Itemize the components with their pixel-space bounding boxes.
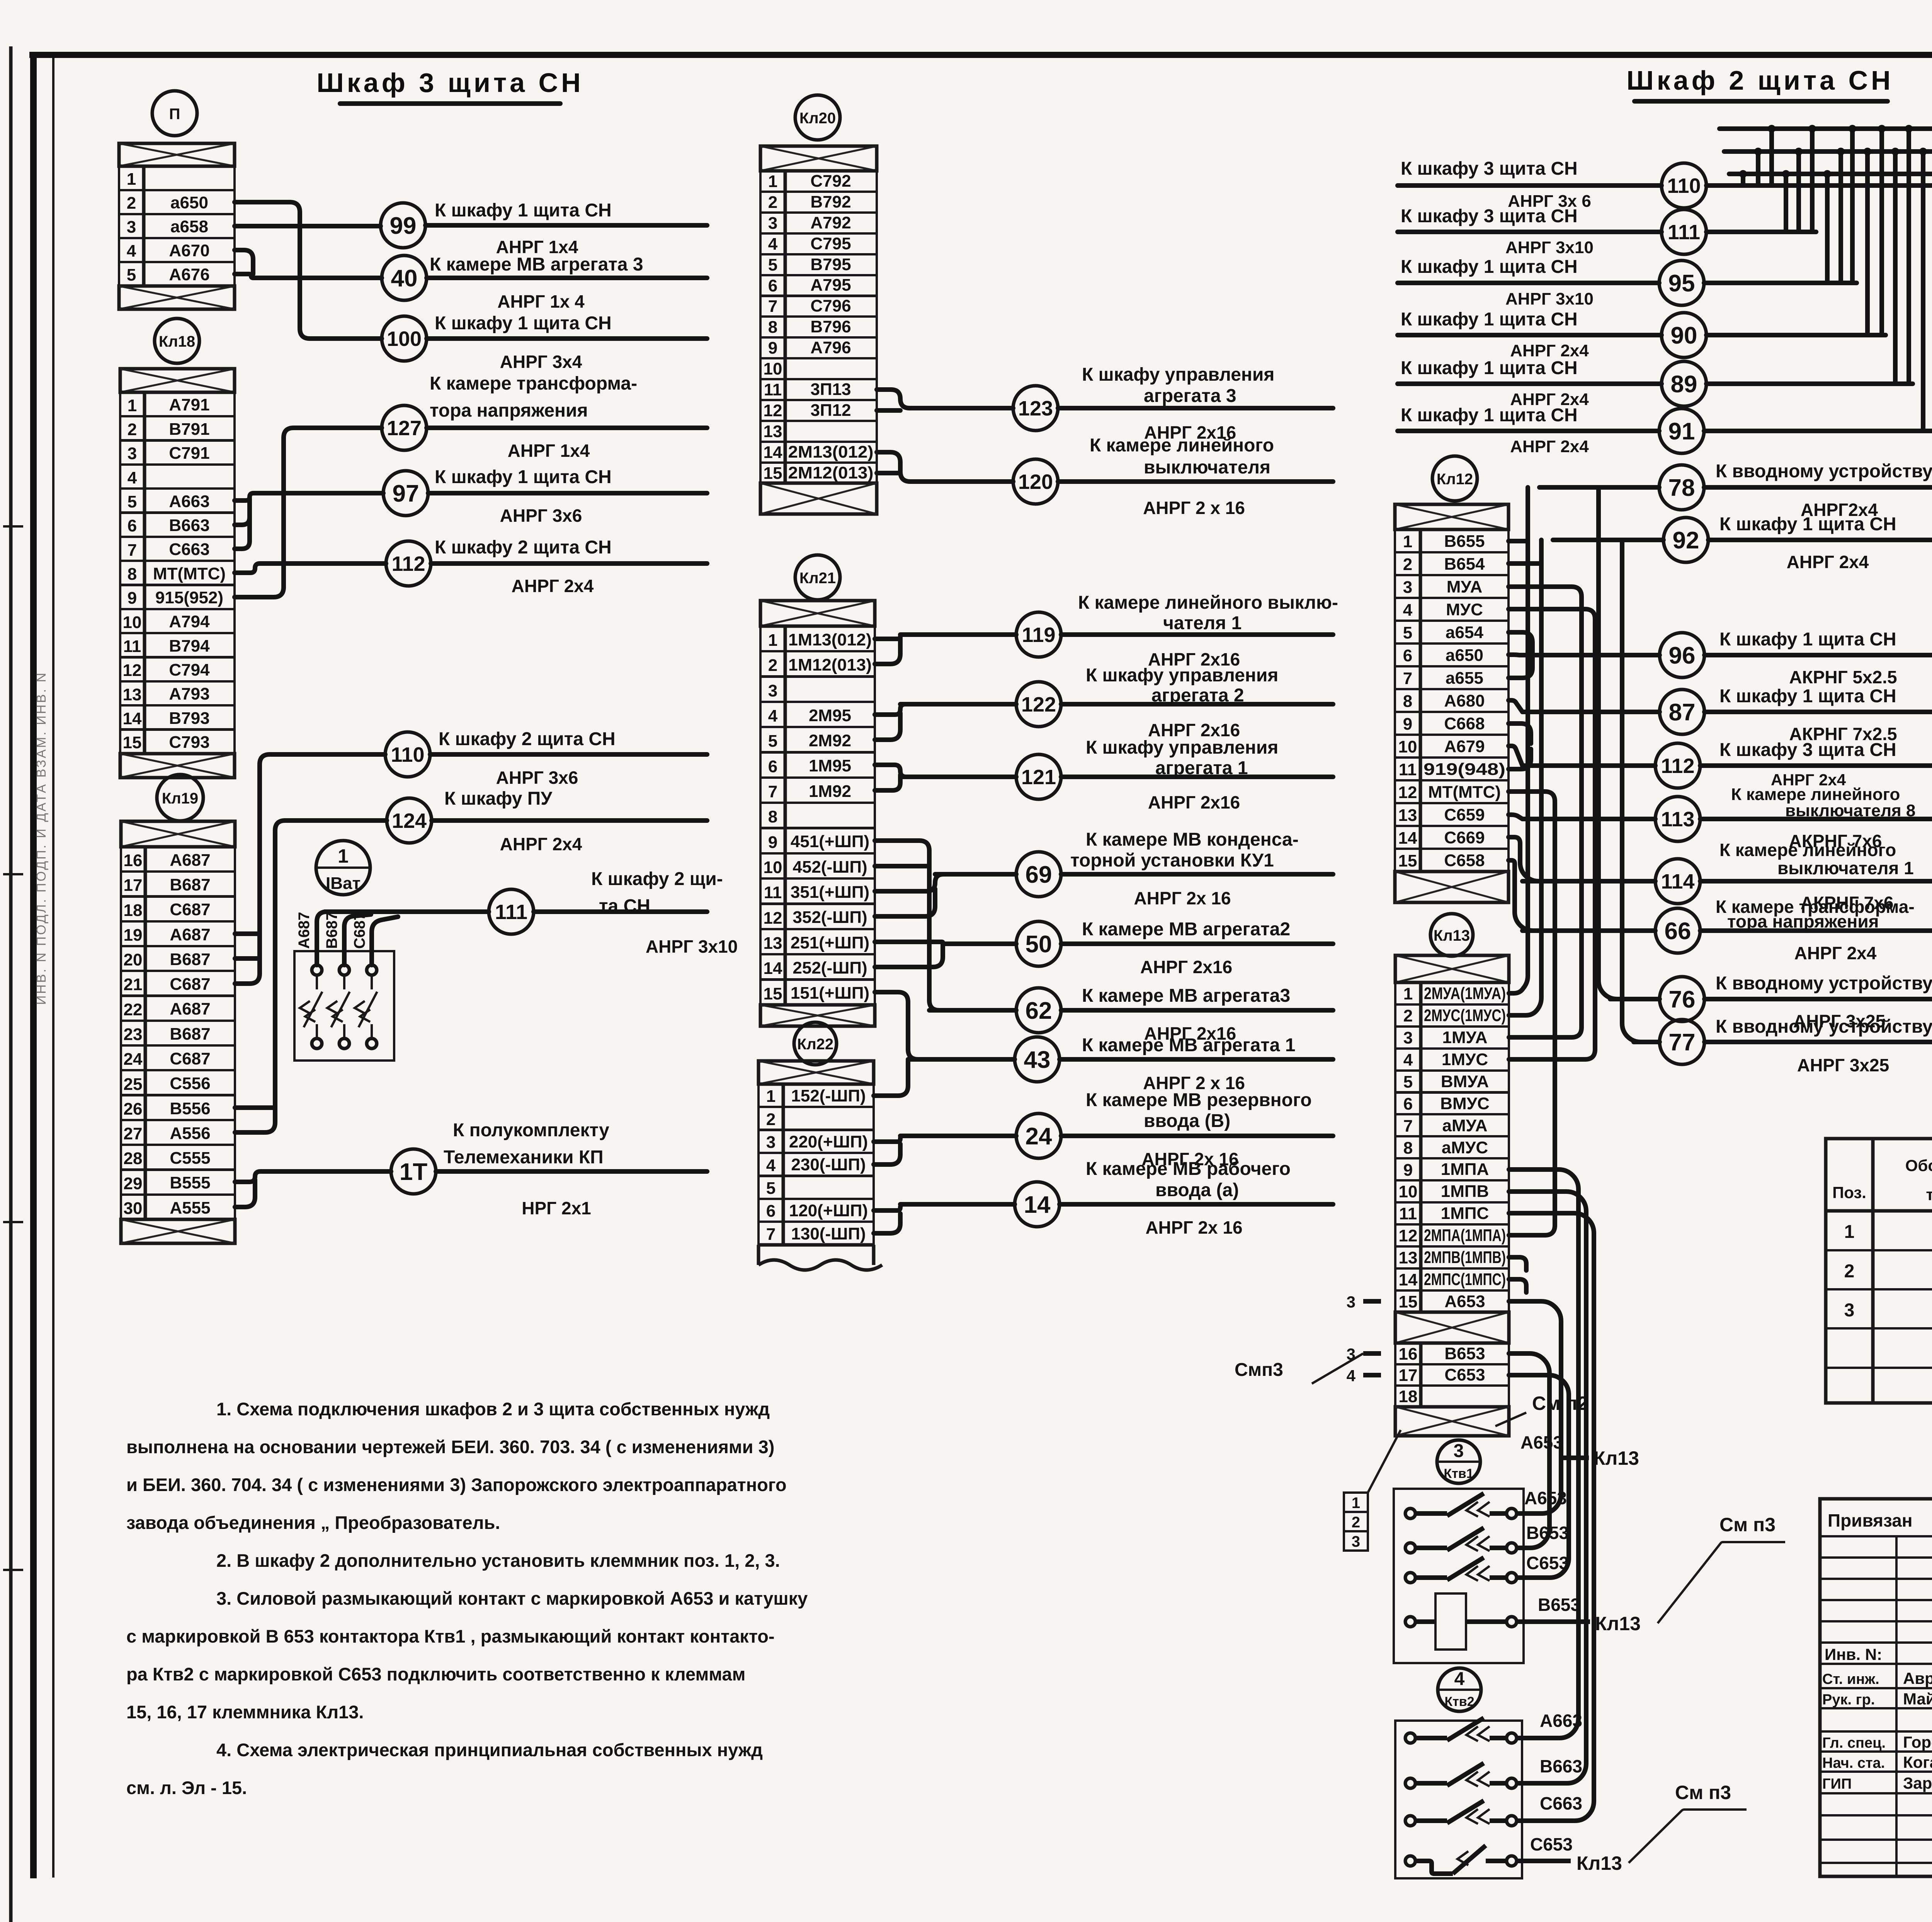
svg-text:С795: С795	[810, 234, 851, 253]
svg-text:7: 7	[1403, 1117, 1413, 1135]
svg-text:9: 9	[1403, 715, 1412, 734]
node 40	[382, 255, 427, 300]
svg-text:5: 5	[127, 266, 136, 284]
svg-text:62: 62	[1026, 998, 1052, 1024]
svg-text:9: 9	[128, 589, 137, 608]
svg-text:а654: а654	[1446, 623, 1483, 642]
svg-text:Аврутина: Аврутина	[1903, 1669, 1932, 1687]
svg-text:АНРГ 3х4: АНРГ 3х4	[500, 352, 582, 372]
svg-text:IВат: IВат	[326, 874, 361, 893]
svg-text:А556: А556	[170, 1124, 210, 1143]
svg-text:7: 7	[768, 297, 777, 316]
svg-text:К шкафу ПУ: К шкафу ПУ	[444, 788, 553, 809]
svg-text:а650: а650	[170, 193, 208, 212]
svg-text:6: 6	[768, 276, 777, 295]
node 124	[387, 798, 432, 843]
svg-text:4: 4	[1403, 1050, 1413, 1069]
leader См п3 at Кл13	[1312, 1353, 1363, 1384]
node 100	[382, 316, 427, 361]
svg-text:14: 14	[764, 443, 782, 462]
wire line of node 111	[332, 909, 489, 914]
svg-text:8: 8	[128, 565, 137, 584]
svg-text:18: 18	[124, 901, 143, 920]
svg-text:2М95: 2М95	[809, 706, 851, 725]
svg-text:12: 12	[764, 909, 782, 928]
svg-text:13: 13	[1399, 1248, 1418, 1267]
svg-text:агрегата 1: агрегата 1	[1155, 758, 1248, 778]
leader from position boxes	[1368, 1430, 1401, 1493]
terminal block label Кл19	[157, 775, 203, 821]
svg-text:124: 124	[392, 809, 427, 832]
terminal block label Кл21	[795, 555, 840, 600]
svg-text:90: 90	[1671, 322, 1697, 349]
svg-text:2МУС(1МУС): 2МУС(1МУС)	[1424, 1006, 1506, 1025]
svg-text:4: 4	[768, 706, 778, 725]
svg-text:Кл13: Кл13	[1595, 1613, 1641, 1634]
contact Ктв1 pole С653	[1405, 1573, 1415, 1583]
svg-text:12: 12	[123, 661, 142, 680]
svg-text:К камере линейного: К камере линейного	[1090, 435, 1274, 456]
svg-text:В653: В653	[1538, 1595, 1580, 1615]
wire line of node 120	[922, 479, 1013, 484]
svg-text:Шкаф 3 щита СН: Шкаф 3 щита СН	[316, 68, 583, 98]
svg-text:А555: А555	[170, 1198, 210, 1217]
wire line of node 97	[428, 491, 707, 495]
svg-text:А794: А794	[169, 612, 210, 631]
wire Кл21 rows 1-2 to node 119	[875, 635, 1016, 639]
svg-text:тип изделия: тип изделия	[1926, 1185, 1932, 1204]
svg-text:АНРГ 2х4: АНРГ 2х4	[1787, 552, 1869, 572]
svg-text:АКРНГ 5х2.5: АКРНГ 5х2.5	[1789, 667, 1897, 687]
svg-text:АНРГ 2х4: АНРГ 2х4	[1510, 341, 1589, 360]
svg-text:К вводному устройству СН: К вводному устройству СН	[1716, 1016, 1932, 1037]
svg-text:В653: В653	[1526, 1523, 1569, 1543]
svg-text:110: 110	[391, 743, 424, 766]
wire Ктв2 NC pole to Кл13	[1517, 1859, 1571, 1863]
node 89	[1662, 361, 1706, 406]
wire tick to Кл13 label	[1561, 1456, 1589, 1460]
svg-text:1: 1	[768, 172, 777, 191]
svg-text:В556: В556	[170, 1099, 210, 1118]
svg-text:19: 19	[124, 926, 143, 945]
svg-text:77: 77	[1669, 1029, 1696, 1056]
svg-text:С663: С663	[1540, 1793, 1582, 1813]
svg-text:К шкафу 1 щита СН: К шкафу 1 щита СН	[1401, 309, 1578, 330]
svg-text:1МУА: 1МУА	[1442, 1028, 1488, 1047]
svg-text:1: 1	[127, 170, 136, 189]
svg-text:А793: А793	[169, 684, 209, 703]
svg-text:К шкафу 2 щита СН: К шкафу 2 щита СН	[439, 729, 616, 749]
svg-text:21: 21	[124, 975, 143, 994]
wire Кл12 row11 stub	[1509, 749, 1531, 769]
wire line of node 77	[1634, 1040, 1660, 1044]
wire line of node 40	[427, 276, 707, 280]
node 110	[1662, 163, 1706, 208]
svg-text:10: 10	[123, 613, 142, 632]
svg-text:агрегата 3: агрегата 3	[1144, 386, 1236, 406]
svg-text:17: 17	[124, 876, 143, 895]
svg-text:17: 17	[1399, 1366, 1418, 1385]
svg-text:А792: А792	[810, 213, 851, 232]
svg-text:С659: С659	[1444, 805, 1485, 824]
svg-text:Рук. гр.: Рук. гр.	[1822, 1692, 1875, 1708]
svg-text:МУС: МУС	[1446, 600, 1483, 619]
svg-text:28: 28	[124, 1149, 143, 1168]
svg-text:Кл21: Кл21	[799, 570, 836, 587]
svg-text:см. л. Эл - 15.: см. л. Эл - 15.	[126, 1777, 247, 1798]
wire line of node 100	[427, 336, 707, 341]
svg-text:А653: А653	[1524, 1488, 1567, 1508]
svg-text:6: 6	[1403, 646, 1412, 665]
node 77	[1660, 1020, 1704, 1064]
svg-text:С556: С556	[170, 1074, 210, 1093]
svg-text:Коган: Коган	[1903, 1753, 1932, 1771]
wire С653 Кл13 row17 to Ктв1 pole3	[1509, 1375, 1569, 1578]
wire node 76 riser	[1599, 487, 1658, 999]
wire Кл19 rows 26-27 to node 124	[235, 821, 387, 1132]
position boxes 1 2 3	[1344, 1493, 1368, 1512]
svg-text:1: 1	[1403, 532, 1412, 551]
svg-text:6: 6	[1403, 1095, 1413, 1113]
svg-text:АНРГ 2х16: АНРГ 2х16	[1140, 957, 1232, 977]
svg-text:8: 8	[1403, 692, 1412, 711]
svg-text:95: 95	[1668, 270, 1695, 297]
contact Ктв1 pole В653	[1405, 1543, 1415, 1553]
wire node 111 feeder	[325, 909, 489, 914]
svg-text:12: 12	[1398, 783, 1417, 802]
svg-text:3П13: 3П13	[810, 380, 851, 399]
svg-text:А796: А796	[810, 338, 851, 357]
svg-text:14: 14	[1024, 1192, 1051, 1218]
node 69	[1016, 852, 1061, 897]
svg-text:5: 5	[1403, 1073, 1413, 1091]
svg-text:1МУС: 1МУС	[1442, 1050, 1488, 1069]
wire contactor pole 3 riser С687	[372, 917, 398, 965]
wire А663 Кл13 row9 to Ктв2 pole1	[1509, 1170, 1578, 1738]
svg-text:1: 1	[338, 845, 349, 867]
wire Кл19 rows 29-30 to node 1Т	[235, 1171, 391, 1182]
wire С663 Кл13 row11 to Ктв2 pole3	[1509, 1213, 1594, 1821]
coil Ктв1	[1405, 1617, 1415, 1627]
node 111	[489, 889, 534, 934]
svg-text:АНРГ 3х25: АНРГ 3х25	[1797, 1055, 1889, 1075]
svg-text:2М13(012): 2М13(012)	[788, 443, 874, 461]
svg-text:91: 91	[1668, 418, 1695, 445]
svg-text:Телемеханики КП: Телемеханики КП	[444, 1147, 604, 1168]
svg-text:1МПА: 1МПА	[1441, 1160, 1489, 1179]
svg-text:1: 1	[1844, 1222, 1855, 1242]
svg-text:2МПА(1МПА): 2МПА(1МПА)	[1424, 1226, 1506, 1245]
wire Кл12 row1 and Кл13 row1 to node 78	[1509, 539, 1528, 543]
svg-text:89: 89	[1671, 371, 1697, 398]
svg-text:и БЕИ. 360. 704. 34 ( с измен: и БЕИ. 360. 704. 34 ( с изменениями 3) З…	[126, 1474, 787, 1495]
svg-text:452(-ШП): 452(-ШП)	[793, 858, 867, 877]
svg-text:22: 22	[124, 1000, 143, 1019]
svg-text:1: 1	[768, 631, 777, 650]
terminal block label П	[152, 91, 197, 136]
wire Кл18 row5 to node 97	[235, 493, 383, 501]
svg-text:3: 3	[1347, 1293, 1355, 1311]
wire Кл21 rows 13-14 to node 50	[875, 942, 1016, 944]
node 76	[1660, 977, 1704, 1021]
svg-text:Привязан: Привязан	[1828, 1510, 1913, 1530]
svg-text:114: 114	[1661, 870, 1694, 893]
svg-text:4: 4	[1347, 1367, 1356, 1385]
contactor pole 1	[312, 965, 322, 975]
svg-text:В795: В795	[810, 255, 851, 274]
terminal block label Кл20	[795, 95, 840, 140]
svg-text:К шкафу 1 щита СН: К шкафу 1 щита СН	[1401, 358, 1578, 378]
svg-text:С796: С796	[810, 296, 851, 315]
svg-text:4: 4	[127, 242, 136, 260]
svg-text:А687: А687	[296, 912, 313, 949]
svg-text:16: 16	[1399, 1345, 1418, 1364]
svg-text:Смп3: Смп3	[1235, 1360, 1283, 1380]
svg-text:А676: А676	[169, 265, 209, 284]
blank scan margin at bottom	[17, 1881, 1932, 1922]
svg-text:В687: В687	[170, 950, 210, 969]
svg-text:тора напряжения: тора напряжения	[430, 400, 588, 421]
wire line of node 87	[1522, 710, 1660, 714]
svg-text:4. Схема электрическая при: 4. Схема электрическая принципиальная со…	[216, 1740, 763, 1760]
svg-text:К шкафу 2 щи-: К шкафу 2 щи-	[591, 869, 723, 889]
svg-text:ИНВ. N ПОДЛ. ПОДП. И ДАТА: ИНВ. N ПОДЛ. ПОДП. И ДАТА ВЗАМ. ИНВ. N	[34, 671, 49, 1005]
svg-text:К камере МВ агрегата2: К камере МВ агрегата2	[1082, 919, 1290, 940]
svg-text:27: 27	[124, 1124, 143, 1143]
wire line of node 110	[430, 752, 707, 757]
svg-text:В655: В655	[1444, 532, 1485, 551]
svg-text:14: 14	[1398, 829, 1417, 848]
wire Кл18 row7 join	[235, 500, 250, 549]
svg-text:П: П	[169, 106, 180, 123]
svg-text:См п2: См п2	[1532, 1393, 1588, 1414]
svg-text:8: 8	[768, 318, 777, 337]
svg-text:Инв. N:: Инв. N:	[1825, 1645, 1882, 1663]
svg-text:220(+ШП): 220(+ШП)	[789, 1132, 868, 1151]
svg-text:АНРГ 1х 4: АНРГ 1х 4	[497, 291, 585, 312]
svg-text:13: 13	[1398, 806, 1417, 825]
svg-text:4: 4	[128, 468, 137, 487]
contact Ктв2 pole А663	[1405, 1733, 1415, 1743]
svg-text:АНРГ 2х 16: АНРГ 2х 16	[1134, 888, 1231, 908]
svg-text:1: 1	[766, 1087, 776, 1106]
svg-text:18: 18	[1399, 1387, 1418, 1406]
wire line of node 122	[900, 702, 1016, 706]
terminal block П body	[119, 143, 235, 166]
node 95	[1659, 260, 1704, 305]
svg-text:К шкафу 1 щита СН: К шкафу 1 щита СН	[435, 313, 612, 334]
svg-text:А663: А663	[169, 492, 209, 511]
svg-text:11: 11	[764, 883, 782, 902]
terminal block Кл13 body	[1395, 955, 1509, 982]
svg-text:2: 2	[1844, 1261, 1855, 1282]
svg-text:С653: С653	[1526, 1553, 1569, 1573]
svg-text:1М12(013): 1М12(013)	[788, 655, 872, 674]
svg-text:16: 16	[124, 851, 143, 870]
wire line of node 91	[1398, 429, 1659, 433]
node 123	[1013, 386, 1058, 431]
svg-text:14: 14	[123, 709, 142, 728]
svg-text:Кл13: Кл13	[1434, 927, 1470, 944]
svg-text:5: 5	[766, 1179, 776, 1198]
svg-text:112: 112	[391, 552, 425, 575]
svg-text:В791: В791	[169, 420, 209, 439]
terminal block Кл13 lower section	[1395, 1312, 1509, 1343]
node 43	[1015, 1037, 1060, 1082]
terminal block Кл21 body	[760, 601, 875, 626]
svg-text:15: 15	[764, 984, 782, 1003]
contactor pole 2	[339, 965, 349, 975]
svg-text:1Т: 1Т	[400, 1159, 427, 1185]
svg-text:К шкафу 1 щита СН: К шкафу 1 щита СН	[1719, 629, 1896, 650]
wire Кл12 row4 to Кл13 row4	[1509, 609, 1595, 1059]
svg-text:К вводному устройству СН: К вводному устройству СН	[1716, 973, 1932, 994]
svg-text:2МПС(1МПС): 2МПС(1МПС)	[1424, 1270, 1506, 1289]
svg-text:10: 10	[1398, 737, 1417, 756]
svg-text:С555: С555	[170, 1149, 210, 1168]
node 91	[1659, 409, 1704, 453]
svg-text:14: 14	[764, 959, 782, 978]
wire Кл12 row14 to node 114	[1509, 837, 1654, 881]
bus А687	[1719, 126, 1932, 131]
svg-text:А791: А791	[169, 395, 209, 414]
svg-text:9: 9	[1403, 1161, 1413, 1180]
svg-text:К шкафу 2 щита СН: К шкафу 2 щита СН	[435, 537, 612, 558]
svg-text:2: 2	[1352, 1514, 1360, 1531]
svg-text:В794: В794	[169, 637, 210, 655]
svg-text:3: 3	[766, 1133, 776, 1152]
svg-text:К камере МВ резервного: К камере МВ резервного	[1086, 1090, 1312, 1110]
svg-text:А670: А670	[169, 241, 209, 260]
svg-text:7: 7	[1403, 669, 1412, 688]
svg-text:3П12: 3П12	[810, 401, 851, 420]
svg-text:выполнена на основании черт: выполнена на основании чертежей БЕИ. 360…	[126, 1437, 774, 1457]
svg-text:23: 23	[124, 1025, 143, 1044]
svg-text:1МПС: 1МПС	[1441, 1204, 1489, 1223]
svg-text:2: 2	[1403, 1006, 1413, 1025]
wire П row5 to node 40	[235, 274, 382, 278]
svg-text:8: 8	[1403, 1139, 1413, 1158]
svg-text:К шкафу 1 щита СН: К шкафу 1 щита СН	[1719, 514, 1896, 535]
svg-text:В555: В555	[170, 1173, 210, 1192]
wire line of node 76	[1610, 997, 1660, 1001]
wire line of node 50	[943, 941, 1016, 946]
svg-text:11: 11	[1399, 760, 1417, 779]
svg-text:15: 15	[1399, 1292, 1418, 1311]
svg-text:6: 6	[768, 757, 777, 776]
svg-text:аМУА: аМУА	[1442, 1116, 1488, 1135]
wire line of node 66	[1522, 928, 1655, 933]
svg-text:К полукомплекту: К полукомплекту	[453, 1120, 609, 1141]
svg-text:3: 3	[128, 444, 137, 463]
svg-text:26: 26	[124, 1100, 143, 1118]
svg-text:3: 3	[1454, 1441, 1464, 1461]
svg-text:152(-ШП): 152(-ШП)	[791, 1086, 866, 1105]
svg-text:97: 97	[393, 480, 419, 507]
wire Кл12 row3 to Кл13 row3	[1509, 587, 1582, 1037]
svg-text:1М13(012): 1М13(012)	[788, 630, 872, 649]
svg-text:В796: В796	[810, 317, 851, 336]
svg-text:3. Силовой размыкающий конт: 3. Силовой размыкающий контакт с маркиро…	[216, 1588, 808, 1609]
svg-text:НРГ 2х1: НРГ 2х1	[522, 1198, 591, 1218]
wire Кл12 row10 to node 112	[1509, 746, 1522, 766]
svg-text:ввода (а): ввода (а)	[1155, 1180, 1239, 1200]
wire Кл12 row8 to node 87	[1509, 700, 1522, 712]
wire line of node 24	[900, 1134, 1016, 1138]
svg-text:К шкафу управления: К шкафу управления	[1082, 364, 1274, 385]
node 62	[1016, 988, 1061, 1033]
contactor Ктв2 symbol circle	[1438, 1668, 1481, 1711]
wire line of node 14	[900, 1202, 1015, 1207]
svg-text:9: 9	[768, 833, 777, 852]
svg-text:2М92: 2М92	[809, 731, 851, 750]
svg-text:С687: С687	[351, 912, 368, 949]
terminal block label Кл18	[155, 318, 199, 363]
terminal block Кл22 body	[759, 1061, 874, 1084]
svg-text:ГИП: ГИП	[1822, 1776, 1852, 1792]
svg-text:АНРГ 3х10: АНРГ 3х10	[646, 936, 738, 957]
wire П row4 drop	[235, 250, 253, 274]
contact Ктв2 pole С663	[1405, 1816, 1415, 1826]
svg-text:122: 122	[1021, 693, 1056, 716]
svg-text:40: 40	[391, 265, 418, 292]
svg-text:В687: В687	[323, 912, 340, 949]
svg-text:3: 3	[127, 218, 136, 237]
node 114	[1655, 859, 1700, 904]
wire line of node 89	[1398, 381, 1662, 386]
svg-text:К шкафу управления: К шкафу управления	[1086, 665, 1278, 686]
svg-text:К камере МВ агрегата 3: К камере МВ агрегата 3	[430, 254, 643, 275]
wire line of node 69	[935, 872, 1016, 877]
wire Кл12 row7 stub	[1509, 658, 1532, 678]
svg-text:торной установки КУ1: торной установки КУ1	[1070, 850, 1274, 871]
bus В687	[1724, 149, 1932, 154]
wire line of node 124	[432, 818, 707, 823]
terminal block label Кл12	[1432, 456, 1477, 501]
wire line of node 114	[1522, 879, 1655, 884]
svg-text:15: 15	[123, 733, 142, 752]
svg-text:К шкафу 1 щита СН: К шкафу 1 щита СН	[435, 467, 612, 487]
svg-text:В792: В792	[810, 192, 851, 211]
svg-text:тора напряжения: тора напряжения	[1727, 911, 1879, 931]
svg-text:92: 92	[1673, 527, 1699, 554]
wire line of node 78	[1539, 485, 1659, 490]
svg-text:А687: А687	[170, 925, 210, 944]
svg-text:К шкафу 1 щита СН: К шкафу 1 щита СН	[1401, 257, 1578, 277]
svg-text:В687: В687	[170, 875, 210, 894]
svg-text:Шкаф 2 щита СН: Шкаф 2 щита СН	[1626, 65, 1893, 95]
wire line of node 92	[1553, 538, 1663, 542]
svg-text:99: 99	[390, 213, 417, 239]
wire line of node 95	[1398, 281, 1659, 285]
svg-text:С794: С794	[169, 661, 210, 679]
svg-text:А680: А680	[1444, 691, 1485, 710]
svg-text:С687: С687	[170, 975, 210, 994]
node 96	[1660, 633, 1704, 678]
terminal block Кл19 body	[121, 821, 235, 847]
svg-text:АНРГ 2х4: АНРГ 2х4	[1794, 943, 1877, 963]
bus drop wires with junctions	[1741, 174, 1745, 186]
wire line of node 1Т	[436, 1169, 707, 1174]
svg-text:12: 12	[1399, 1226, 1418, 1245]
wire Кл18 row6 join	[235, 499, 250, 525]
wire Кл21 rows 11-12 to node 69	[875, 874, 1016, 891]
svg-text:11: 11	[123, 637, 141, 656]
wire Кл18 row8 to node 112	[235, 563, 386, 573]
svg-text:а658: а658	[170, 217, 208, 236]
node 120	[1013, 459, 1058, 504]
svg-text:1М92: 1М92	[809, 782, 851, 801]
